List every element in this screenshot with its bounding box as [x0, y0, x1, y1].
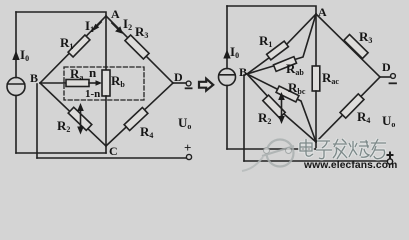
wire C to D diagonal	[106, 83, 173, 146]
svg-text:D: D	[174, 70, 183, 84]
wire bottom to C (right)	[227, 148, 316, 150]
svg-text:1-n: 1-n	[85, 88, 100, 100]
watermark chars light underlay	[300, 139, 386, 159]
watermark logo circle	[267, 140, 294, 167]
wire D to output	[173, 82, 186, 84]
resistor Ra	[66, 80, 89, 87]
resistor Rb	[102, 70, 110, 96]
R2 strain arrow (double headed)	[80, 108, 82, 130]
resistor R1 (right)	[267, 41, 289, 60]
resistor R1	[68, 35, 90, 57]
wire left vertical upper (right circuit)	[226, 6, 228, 69]
wire B down	[36, 84, 38, 158]
svg-text:C: C	[109, 144, 118, 158]
resistor Rac	[312, 66, 320, 91]
svg-text:B: B	[30, 71, 38, 85]
wire B to C (R2 path, right)	[247, 74, 316, 142]
dashed box potentiometer network	[64, 67, 144, 100]
svg-text:www.elecfans.com: www.elecfans.com	[303, 160, 397, 171]
wire B to Ra	[40, 82, 66, 84]
terminal minus D (left)	[186, 81, 191, 86]
wire A to C vertical (Rac path)	[315, 14, 317, 66]
watermark dot 1	[264, 148, 270, 154]
wire B down (right)	[243, 75, 245, 161]
resistor R3	[125, 35, 149, 59]
svg-text:A: A	[318, 5, 327, 19]
R2 strain arrow (right)	[281, 97, 283, 119]
watermark logo chord	[262, 146, 294, 156]
wire bottom line B to plus terminal	[37, 157, 186, 159]
svg-text:A: A	[111, 7, 120, 21]
I1 arrow	[96, 22, 101, 27]
wire left vertical lower	[15, 96, 17, 154]
resistor R4 (right)	[340, 94, 364, 118]
svg-text:B: B	[239, 65, 247, 79]
wire B to A (Rab path)	[247, 14, 316, 74]
svg-text:+: +	[184, 140, 191, 155]
watermark logo tail	[242, 157, 263, 171]
block arrow	[199, 79, 213, 91]
current source I0 (right)	[219, 69, 236, 86]
wire C to D (right)	[316, 77, 380, 142]
terminal minus D (right)	[391, 74, 396, 79]
wire B to C (Rbc path)	[247, 74, 316, 142]
wire top: source top to node A	[16, 12, 106, 16]
wire left vertical lower (right circuit)	[226, 86, 228, 150]
wire B to A diagonal	[40, 16, 106, 83]
wire bottom line source to C	[16, 152, 106, 154]
wire bottom line to plus terminal (right)	[244, 160, 387, 162]
watermark chars gray outline	[300, 139, 386, 159]
wire Rb to C	[105, 96, 107, 146]
terminal plus (right, redrawn over watermark)	[387, 152, 394, 165]
wire top right: source to node A	[227, 6, 316, 14]
svg-text:D: D	[382, 60, 391, 74]
wire Rac to C	[315, 91, 317, 142]
terminal plus (right)	[387, 159, 392, 164]
wire node C stub	[105, 146, 107, 153]
wire B to C diagonal	[40, 83, 106, 146]
I0 arrow (right)	[223, 50, 230, 59]
terminal plus (left)	[186, 154, 191, 159]
resistor R3 (right)	[344, 35, 368, 59]
wiper arrow	[89, 82, 98, 84]
wire A to D (right)	[316, 14, 380, 77]
wire B to A (right, R1 path)	[247, 14, 316, 74]
watermark dot 2	[286, 148, 292, 154]
resistor R2	[68, 107, 92, 130]
resistor Rab	[273, 57, 296, 72]
resistor R2 (right)	[263, 95, 285, 118]
current source I0 (left)	[7, 78, 25, 96]
I0 arrow (left)	[12, 51, 19, 61]
svg-text:n: n	[89, 65, 97, 80]
resistor R4	[124, 108, 148, 131]
wire D to output (right)	[380, 76, 391, 78]
wire C stub (right)	[315, 142, 317, 149]
wire A down to Rb	[105, 16, 107, 70]
wire left vertical upper	[15, 12, 17, 78]
I2 arrow	[112, 23, 119, 30]
wire A to D diagonal	[106, 16, 173, 83]
resistor Rbc	[276, 86, 299, 102]
